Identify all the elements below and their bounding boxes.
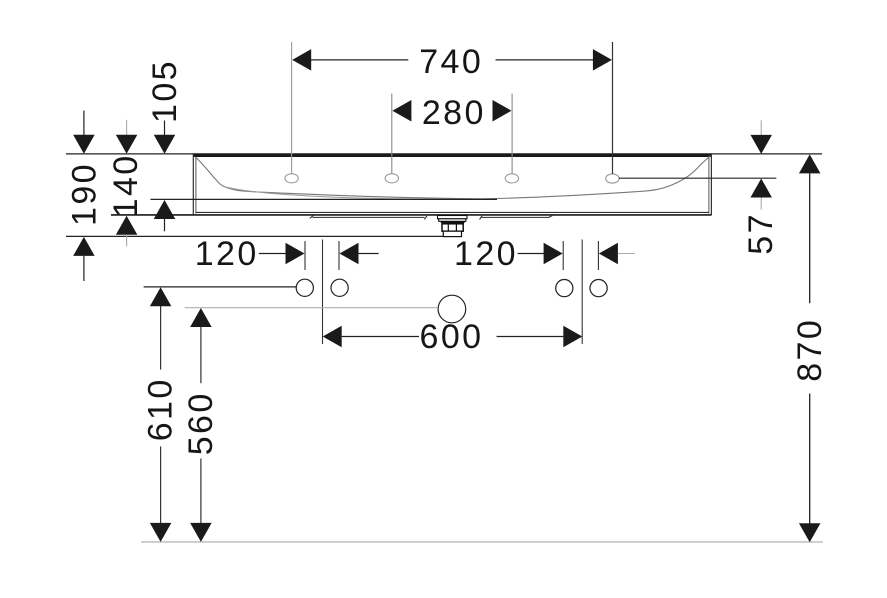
dimension 120 right: tail right gray: [618, 253, 635, 255]
left pair centerline: [322, 240, 324, 345]
lower reference line (190 dim): [66, 235, 443, 237]
dimension 870 line upper: [809, 173, 811, 303]
mounting hole left-pair-left: [296, 279, 313, 296]
mounting hole left-pair-right: [331, 279, 348, 296]
dimension 190 down arrow: [73, 135, 95, 154]
dimension 560 line upper: [200, 327, 202, 383]
drain flange upper: [438, 216, 468, 219]
mounting hole extension line right-pair-right: [597, 241, 599, 270]
dimension 140 down arrow: [116, 135, 138, 154]
dimension 120 left: tail right: [359, 253, 379, 255]
dimension 57 down arrow: [750, 135, 772, 154]
underside tick right of drain: [480, 216, 483, 220]
dimension 740 arrow right: [593, 49, 612, 71]
560 leader line: [185, 307, 438, 309]
washbasin left edge: [192, 154, 194, 215]
dimension 57 up arrow: [750, 179, 772, 198]
drain collar: [443, 231, 461, 236]
floor line: [141, 541, 823, 543]
faucet hole 3: [505, 174, 518, 183]
dimension 105 down arrow: [154, 135, 176, 154]
washbasin bottom edge: [111, 214, 712, 216]
dimension 600 line right segment: [497, 336, 564, 338]
dimension 280 arrow right: [493, 100, 512, 122]
dimension 740 extension line right: [612, 42, 614, 174]
dimension 105 up arrow: [154, 200, 176, 219]
washbasin right edge: [710, 154, 712, 215]
drain nut facet line 2: [455, 225, 457, 231]
underside shelf line right: [481, 216, 549, 218]
dimension 120 left: tail left: [259, 253, 287, 255]
dimension 740 arrow left: [292, 49, 311, 71]
svg-text:120: 120: [195, 235, 259, 273]
dimension 190 stem above: [83, 111, 85, 136]
dimension 610 down arrow: [150, 523, 172, 542]
basin interior curve (far edge): [196, 156, 710, 199]
basin interior bottom reference line (105 dim): [151, 198, 498, 200]
dimension 740 extension line left: [291, 42, 293, 174]
dimension 140 stem above: [126, 120, 128, 136]
dimension 740 line right segment: [496, 59, 594, 61]
dimension 190 stem below: [83, 256, 85, 281]
dimension 57 reference line: [619, 177, 776, 179]
dimension 870 line lower: [809, 394, 811, 524]
610 leader line: [144, 286, 297, 288]
dimension 105 stem below: [164, 219, 166, 231]
dimension 600 arrow right: [563, 326, 582, 348]
svg-text:560: 560: [182, 391, 220, 455]
svg-text:610: 610: [142, 377, 180, 441]
dimension 280 extension line right: [511, 94, 513, 174]
dimension 740 line left segment: [311, 59, 408, 61]
mounting hole right-pair-left: [556, 280, 573, 297]
dimension 120 right: tail left: [518, 253, 545, 255]
underside shelf line left: [313, 216, 425, 218]
svg-text:600: 600: [420, 318, 484, 356]
dimension 57 stem above: [760, 120, 762, 136]
drain flange lower: [439, 219, 466, 222]
dimension 870 down arrow: [799, 523, 821, 542]
svg-text:140: 140: [107, 153, 145, 217]
mounting hole extension line right-pair-left: [562, 241, 564, 270]
dimension 140 stem below: [126, 235, 128, 247]
faucet hole 2: [385, 174, 398, 183]
wall reference line: [66, 153, 822, 155]
dimension 600 arrow left: [323, 326, 342, 348]
drain nut: [442, 224, 463, 231]
svg-text:280: 280: [422, 94, 486, 132]
dimension 610 up arrow: [150, 287, 172, 306]
svg-text:57: 57: [742, 212, 780, 255]
dimension 560 down arrow: [190, 523, 212, 542]
basin interior curve (near edge): [222, 186, 480, 199]
mounting hole extension line left-pair-left: [304, 241, 306, 270]
dimension 120 left: arrow pointing right: [286, 243, 305, 265]
underside tick far-right: [548, 214, 555, 217]
dimension 870 up arrow: [799, 154, 821, 173]
dimension 57 stem below: [760, 198, 762, 210]
dimension 140 up arrow: [116, 216, 138, 235]
dimension 560 up arrow: [190, 308, 212, 327]
drain outlet circle: [438, 295, 466, 323]
svg-text:105: 105: [146, 59, 184, 123]
dimension 600 line left segment: [342, 336, 419, 338]
svg-text:120: 120: [454, 235, 518, 273]
dimension 120 right: arrow pointing left: [599, 243, 618, 265]
dimension 190 up arrow: [73, 237, 95, 256]
drain nut facet line 1: [447, 225, 449, 231]
faucet hole 4: [606, 174, 619, 183]
dimension 560 line lower: [200, 459, 202, 525]
underside tick far-left: [310, 215, 314, 218]
drain taper band: [440, 221, 466, 224]
svg-text:190: 190: [65, 162, 103, 226]
svg-text:870: 870: [791, 318, 829, 382]
dimension 105 stem above: [164, 121, 166, 137]
dimension 610 line lower: [160, 447, 162, 525]
right pair centerline: [581, 240, 583, 345]
dimension 120 right: arrow pointing right: [544, 243, 563, 265]
mounting hole extension line left-pair-right: [338, 241, 340, 270]
underside tick left of drain: [424, 216, 427, 220]
washbasin rim (top edge): [193, 154, 712, 158]
dimension 280 arrow left: [392, 100, 411, 122]
mounting hole right-pair-right: [590, 280, 607, 297]
faucet hole 1: [285, 174, 298, 183]
dimension 120 left: arrow pointing left: [340, 243, 359, 265]
dimension 610 line upper: [160, 306, 162, 370]
svg-text:740: 740: [419, 43, 483, 81]
dimension 280 extension line left: [391, 94, 393, 174]
